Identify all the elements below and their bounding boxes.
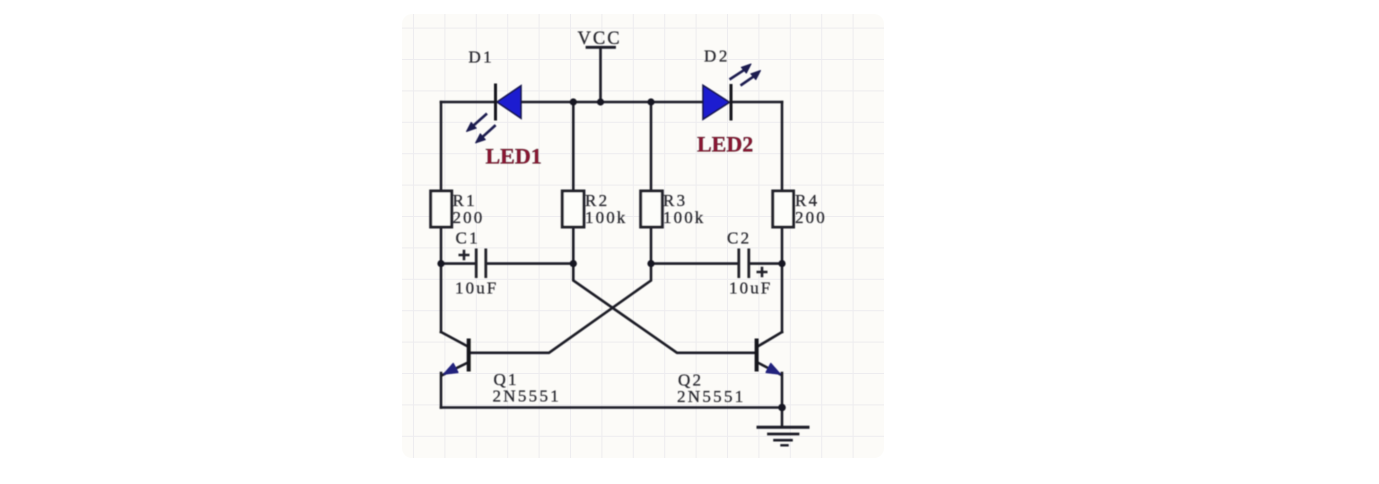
svg-text:100k: 100k xyxy=(585,208,627,227)
svg-text:10uF: 10uF xyxy=(455,279,498,298)
svg-text:100k: 100k xyxy=(663,208,705,227)
svg-text:C1: C1 xyxy=(456,228,480,247)
svg-text:LED2: LED2 xyxy=(697,131,753,156)
svg-text:10uF: 10uF xyxy=(729,279,772,298)
svg-text:LED1: LED1 xyxy=(486,143,542,168)
svg-text:C2: C2 xyxy=(727,228,751,247)
svg-text:2N5551: 2N5551 xyxy=(677,387,746,406)
svg-text:200: 200 xyxy=(453,208,485,227)
svg-text:D1: D1 xyxy=(469,48,495,67)
svg-text:VCC: VCC xyxy=(578,29,622,49)
svg-text:2N5551: 2N5551 xyxy=(493,387,562,406)
svg-text:D2: D2 xyxy=(704,47,730,66)
svg-text:200: 200 xyxy=(795,208,827,227)
